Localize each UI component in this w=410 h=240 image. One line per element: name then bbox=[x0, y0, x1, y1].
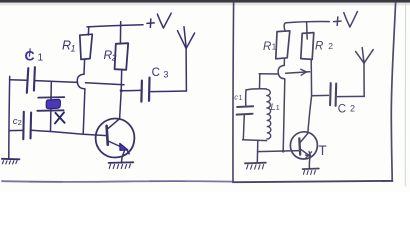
transistor T base bar bbox=[298, 138, 301, 154]
transistor Q1 emitter exit wire bbox=[127, 150, 129, 154]
ground (tank) bbox=[245, 162, 266, 165]
antenna mast (left) bbox=[185, 48, 187, 91]
transistor Q1 collector diagonal bbox=[108, 119, 120, 129]
resistor R1 bottom lead (lower part, to base node) bbox=[83, 89, 85, 134]
capacitor C3 right wire bbox=[151, 90, 187, 93]
capacitor C3 left wire bbox=[121, 89, 140, 91]
resistor R2 bottom lead / collector wire bbox=[120, 70, 122, 119]
label +V (left) bbox=[147, 13, 171, 28]
resistor R2 body (right) bbox=[301, 33, 314, 60]
capacitor C2 left wire bbox=[312, 94, 329, 96]
svg-text:2: 2 bbox=[18, 118, 22, 127]
svg-text:1: 1 bbox=[276, 103, 280, 112]
capacitor C3 plates bbox=[140, 81, 143, 102]
capacitor C1 left wire bbox=[10, 79, 27, 81]
transistor T circle bbox=[290, 132, 317, 159]
svg-text:R: R bbox=[315, 40, 323, 52]
node: base junction bbox=[282, 150, 285, 153]
svg-text:2: 2 bbox=[328, 41, 333, 51]
wire hop over base wire bbox=[77, 74, 85, 89]
tank top bar bbox=[246, 89, 266, 90]
capacitor C1 plates (right, horizontal) bbox=[237, 105, 253, 108]
svg-text:2: 2 bbox=[350, 104, 355, 114]
inductor L1 coil bbox=[267, 89, 271, 139]
transistor T emitter diagonal with arrow bbox=[300, 149, 311, 157]
resistor R2 top lead (right) bbox=[306, 22, 309, 39]
faint page crease line bbox=[404, 4, 406, 186]
left rail vertical wire bbox=[8, 76, 11, 158]
antenna mast (right) bbox=[363, 63, 365, 96]
svg-text:1: 1 bbox=[239, 95, 243, 102]
wire tank top to hop bbox=[259, 73, 278, 75]
svg-text:T: T bbox=[318, 143, 326, 158]
antenna arms (right) bbox=[356, 51, 364, 63]
resistor R2 body bbox=[115, 43, 129, 70]
wire hop to R2 lead with arrow bbox=[286, 72, 310, 73]
scan bottom edge line bbox=[2, 180, 232, 183]
capacitor C1 plates bbox=[27, 68, 29, 93]
wire C1 to hop bbox=[35, 81, 77, 83]
transistor Q1 circle bbox=[96, 118, 135, 157]
capacitor C2 plates bbox=[329, 83, 332, 105]
resistor R1 bottom lead upper bbox=[283, 59, 285, 65]
capacitor C2 plates bbox=[22, 112, 25, 139]
ground (left rail) bbox=[2, 158, 20, 161]
tank circuit top lead bbox=[259, 74, 261, 89]
svg-text:C: C bbox=[152, 67, 160, 79]
wire hop (right) bbox=[278, 65, 285, 78]
resistor R2 bottom lead bbox=[310, 60, 312, 96]
transistor Q1 base bar bbox=[107, 126, 108, 145]
resistor R1 bottom lead (upper part) bbox=[83, 60, 86, 74]
+V rail wire bbox=[87, 25, 143, 27]
panel seam border bbox=[232, 2, 235, 181]
label X bbox=[55, 112, 65, 123]
scan top band bbox=[0, 0, 410, 5]
ground (Q1 emitter) bbox=[109, 161, 134, 164]
svg-text:1: 1 bbox=[38, 53, 44, 64]
capacitor C2 left wire bbox=[9, 129, 23, 131]
crystal X1 bottom plate bbox=[37, 109, 63, 112]
svg-text:1: 1 bbox=[71, 44, 76, 54]
svg-text:1: 1 bbox=[272, 43, 277, 52]
svg-text:R: R bbox=[263, 41, 271, 53]
transistor T collector diagonal bbox=[300, 133, 308, 142]
resistor R2 top lead bbox=[119, 22, 121, 44]
right panel bottom border bbox=[233, 181, 392, 182]
svg-text:C: C bbox=[338, 103, 346, 115]
collector wire down to transistor bbox=[308, 96, 312, 134]
label +V (right) bbox=[334, 12, 358, 27]
svg-text:2: 2 bbox=[111, 53, 117, 63]
wire hop to R2 lead bbox=[85, 83, 124, 85]
tank bottom bar bbox=[243, 139, 267, 142]
svg-text:c: c bbox=[234, 93, 238, 102]
node: C3 junction bbox=[120, 89, 123, 92]
resistor R1 lead to base node bbox=[283, 79, 285, 151]
resistor R1 top lead bbox=[87, 27, 90, 35]
antenna arms (left) bbox=[178, 31, 187, 49]
wire arrowhead bbox=[301, 69, 307, 75]
crystal X1 top plate bbox=[38, 96, 64, 99]
crystal X1 body bbox=[46, 99, 60, 108]
capacitor C2 right wire bbox=[338, 95, 365, 97]
transistor T emitter exit wire bbox=[308, 157, 311, 168]
tank left wire upper bbox=[245, 90, 247, 106]
crystal X1 lead bbox=[50, 83, 53, 132]
ground (T emitter) bbox=[303, 168, 319, 171]
resistor R1 body (right) bbox=[276, 31, 290, 59]
base wire C2 to transistor bbox=[31, 130, 106, 135]
svg-text:3: 3 bbox=[163, 69, 168, 79]
transistor Q1 emitter arrow bbox=[120, 143, 128, 150]
base wire (right) bbox=[258, 151, 300, 152]
tank bottom lead to ground bbox=[256, 140, 259, 163]
tank left wire lower bbox=[243, 115, 244, 140]
+V rail wire (right) with hook bbox=[286, 22, 329, 23]
resistor R1 body bbox=[80, 34, 93, 59]
right panel border bbox=[391, 3, 395, 182]
transistor Q1 emitter diagonal bbox=[108, 141, 124, 148]
